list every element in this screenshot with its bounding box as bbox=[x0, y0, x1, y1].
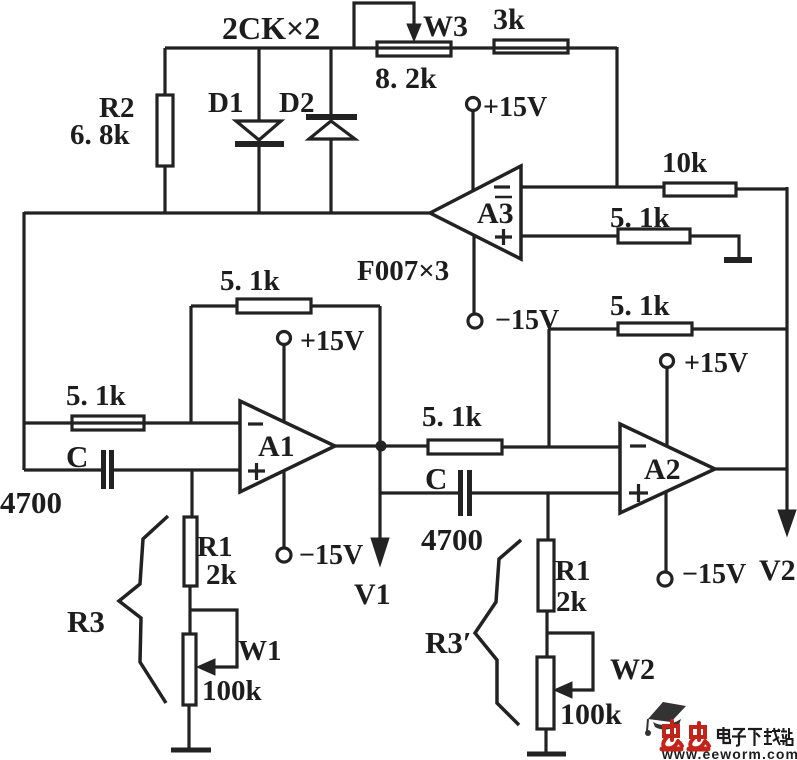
label +15V of A3 bbox=[483, 92, 547, 123]
potentiometer W3 wiper arrowhead bbox=[407, 24, 421, 41]
wire A1 output bbox=[335, 444, 428, 447]
op-amp A1 plus sign bbox=[248, 463, 265, 480]
svg-text:D2: D2 bbox=[279, 87, 314, 119]
terminal +15V of A1 bbox=[278, 332, 291, 345]
svg-text:4700: 4700 bbox=[421, 522, 483, 557]
capacitor C right left plate bbox=[458, 470, 463, 516]
label +15V of A2 bbox=[684, 348, 748, 379]
diode D2 cathode bar bbox=[306, 114, 357, 120]
terminal -15V of A3 bbox=[468, 314, 482, 328]
svg-text:6. 8k: 6. 8k bbox=[70, 119, 131, 151]
label A2 bbox=[644, 453, 681, 486]
watermark logo chong glyph 1 bbox=[662, 721, 682, 749]
wire R1 right to W2 bbox=[545, 611, 548, 657]
svg-text:5. 1k: 5. 1k bbox=[610, 290, 671, 322]
label W1 bbox=[238, 635, 282, 667]
wire V2 drop bbox=[785, 469, 788, 512]
svg-text:5. 1k: 5. 1k bbox=[610, 202, 671, 234]
label W2 bbox=[610, 653, 655, 686]
op-amp A2 plus sign bbox=[629, 484, 648, 502]
resistor 3k body bbox=[494, 40, 568, 53]
wire A2 output bbox=[715, 467, 787, 470]
wire A3 -15V stem bbox=[472, 236, 475, 314]
potentiometer W3 wiper bracket bbox=[354, 3, 414, 48]
label 5.1k A1 feedback bbox=[220, 265, 281, 297]
terminal +15V of A3 bbox=[467, 98, 480, 111]
wire A1 inverting input row bbox=[24, 421, 240, 424]
svg-text:W2: W2 bbox=[610, 653, 655, 686]
label C right bbox=[425, 461, 447, 496]
label C left bbox=[66, 439, 88, 474]
diode D1 anode triangle bbox=[236, 121, 281, 140]
op-amp A3 plus sign bbox=[495, 229, 512, 245]
label R1 right bbox=[555, 555, 590, 587]
watermark text zhan bbox=[780, 728, 793, 745]
svg-text:C: C bbox=[425, 461, 447, 496]
svg-text:+15V: +15V bbox=[684, 348, 748, 379]
ground bar left bbox=[171, 748, 211, 753]
diode D1 lead bottom bbox=[257, 147, 260, 213]
watermark text dian bbox=[718, 727, 730, 743]
label 4700 right bbox=[421, 522, 483, 557]
label 2k left bbox=[206, 559, 238, 591]
terminal -15V of A1 bbox=[277, 548, 291, 562]
label 5.1k at A3 plus input bbox=[610, 202, 671, 234]
label 8.2k bbox=[375, 62, 437, 95]
resistor 10k body bbox=[664, 183, 736, 196]
svg-text:A2: A2 bbox=[644, 453, 681, 486]
capacitor C right right plate bbox=[467, 470, 472, 516]
resistor R2 lead top bbox=[163, 48, 166, 95]
label -15V of A1 bbox=[299, 540, 363, 571]
svg-text:100k: 100k bbox=[560, 698, 622, 731]
arrow V1 bbox=[371, 538, 389, 566]
junction dot A1 output bbox=[376, 441, 387, 452]
diode D2 lead bottom bbox=[329, 139, 332, 213]
potentiometer W3 body 8.2k bbox=[377, 42, 451, 56]
resistor R1 left body bbox=[184, 517, 197, 586]
potentiometer W2 body 100k bbox=[537, 657, 554, 729]
label R1 left bbox=[197, 531, 232, 563]
op-amp A2 triangle bbox=[620, 424, 715, 513]
wire junction drop to R1 left bbox=[190, 470, 193, 517]
svg-text:2k: 2k bbox=[556, 586, 588, 618]
label 2k right bbox=[556, 586, 588, 618]
wire A1 feedback to output node bbox=[311, 304, 380, 307]
svg-text:R3′: R3′ bbox=[425, 625, 472, 660]
wire right rail vertical bbox=[785, 187, 788, 470]
resistor 5.1k at A3 plus input bbox=[618, 229, 690, 243]
svg-text:100k: 100k bbox=[202, 675, 263, 707]
svg-text:−15V: −15V bbox=[682, 559, 746, 590]
wire A3 inverting input to 10k bbox=[521, 185, 664, 188]
label 100k right bbox=[560, 698, 622, 731]
op-amp A2 minus sign bbox=[630, 444, 646, 447]
label 100k left bbox=[202, 675, 263, 707]
label R3 bbox=[67, 604, 105, 639]
potentiometer W1 wiper arrowhead bbox=[197, 659, 215, 675]
diode D2 anode triangle bbox=[309, 121, 355, 139]
label -15V of A3 bbox=[495, 305, 559, 336]
potentiometer W1 body 100k bbox=[183, 634, 196, 705]
resistor 5.1k A1 feedback bbox=[237, 299, 311, 313]
svg-text:4700: 4700 bbox=[0, 485, 62, 520]
diode D1 cathode bar bbox=[235, 141, 284, 147]
svg-text:5. 1k: 5. 1k bbox=[66, 380, 127, 412]
label V1 bbox=[354, 578, 391, 611]
wire A3 output bus to left rail bbox=[24, 211, 430, 214]
wire 100k to ground left bbox=[187, 705, 190, 748]
op-amp A1 minus sign bbox=[248, 422, 263, 425]
svg-text:A3: A3 bbox=[477, 197, 514, 230]
label D2 bbox=[279, 87, 314, 119]
ground bar at A3 plus network bbox=[724, 257, 752, 263]
op-amp A1 triangle bbox=[240, 401, 335, 492]
label F007x3 bbox=[357, 255, 449, 287]
svg-text:R1: R1 bbox=[555, 555, 590, 587]
brace R3 bbox=[119, 516, 168, 703]
svg-text:R3: R3 bbox=[67, 604, 105, 639]
svg-text:−15V: −15V bbox=[299, 540, 363, 571]
wire top bus corner down to A3 inverting input node bbox=[615, 47, 618, 188]
wire 100k right to ground bbox=[544, 729, 547, 752]
wire top bus bbox=[165, 46, 617, 49]
label 4700 left bbox=[0, 485, 62, 520]
label 2CK x2 bbox=[222, 10, 320, 46]
terminal -15V of A2 bbox=[658, 572, 672, 586]
wire A2 -15V stem bbox=[664, 493, 667, 572]
svg-text:2k: 2k bbox=[206, 559, 238, 591]
label A3 with overbar bbox=[477, 197, 514, 230]
label R2 bbox=[99, 92, 134, 124]
resistor R2 body bbox=[157, 95, 173, 166]
watermark text xia bbox=[748, 729, 762, 746]
label A1 bbox=[258, 430, 295, 463]
label V2 bbox=[759, 554, 796, 587]
svg-text:2CK×2: 2CK×2 bbox=[222, 10, 320, 46]
diode D2 lead top bbox=[329, 48, 332, 115]
potentiometer W2 wiper path bbox=[547, 633, 593, 690]
wire C left row bbox=[24, 468, 101, 471]
wire C to A1 plus input bbox=[114, 468, 240, 471]
wire left rail vertical bbox=[22, 212, 25, 470]
resistor R1 right body bbox=[538, 540, 554, 611]
svg-text:W1: W1 bbox=[238, 635, 282, 667]
wire A1 feedback top row bbox=[191, 304, 237, 307]
wire drop to R1 right bbox=[546, 493, 549, 540]
label R3 prime bbox=[425, 625, 472, 660]
ground bar right bbox=[527, 752, 566, 757]
svg-text:5. 1k: 5. 1k bbox=[422, 401, 483, 433]
brace R3 prime bbox=[475, 540, 521, 725]
wire A3 +15V stem bbox=[471, 111, 474, 191]
svg-text:3k: 3k bbox=[493, 3, 525, 36]
capacitor C right plate bbox=[109, 450, 114, 489]
label 5.1k A2 feedback bbox=[610, 290, 671, 322]
resistor 5.1k at A1 input bbox=[72, 416, 144, 430]
svg-text:10k: 10k bbox=[662, 147, 708, 179]
resistor R2 lead bottom bbox=[163, 166, 166, 213]
resistor 5.1k A2 feedback bbox=[618, 323, 692, 335]
label -15V of A2 bbox=[682, 559, 746, 590]
watermark logo graduation cap bbox=[645, 702, 686, 736]
wire A1 feedback vertical left bbox=[189, 306, 192, 423]
wire feedback drop to A2 inverting input bbox=[547, 329, 550, 447]
potentiometer W2 wiper arrowhead bbox=[554, 682, 572, 698]
svg-text:8. 2k: 8. 2k bbox=[375, 62, 437, 95]
svg-text:A1: A1 bbox=[258, 430, 295, 463]
wire C to A2 plus input bbox=[472, 491, 620, 494]
arrow V2 bbox=[778, 510, 796, 536]
svg-text:V2: V2 bbox=[759, 554, 796, 587]
svg-text:+15V: +15V bbox=[483, 92, 547, 123]
wire 10k to right rail bbox=[736, 187, 787, 190]
watermark logo chong glyph 2 bbox=[689, 723, 709, 749]
label 3k bbox=[493, 3, 525, 36]
label +15V of A1 bbox=[300, 326, 364, 357]
op-amp A3 minus sign bbox=[494, 185, 510, 188]
op-amp A3 triangle bbox=[430, 166, 521, 259]
watermark text zi bbox=[732, 729, 746, 746]
svg-text:V1: V1 bbox=[354, 578, 391, 611]
wire A1 +15V stem bbox=[282, 345, 285, 422]
wire A2 feedback to right rail bbox=[692, 327, 787, 330]
svg-text:C: C bbox=[66, 439, 88, 474]
wire A1 feedback vertical right bbox=[378, 306, 381, 446]
diode D1 lead top bbox=[257, 48, 260, 121]
wire A3 non-inverting input bbox=[521, 234, 618, 237]
wire V1 drop bbox=[378, 446, 381, 540]
wire C right row from V1 node bbox=[380, 491, 458, 494]
capacitor C left plate bbox=[101, 450, 106, 489]
label 10k bbox=[662, 147, 708, 179]
wire A2 +15V stem bbox=[665, 368, 668, 446]
svg-text:F007×3: F007×3 bbox=[357, 255, 449, 287]
svg-text:5. 1k: 5. 1k bbox=[220, 265, 281, 297]
terminal +15V of A2 bbox=[661, 355, 674, 368]
op-amp A3 overbar bbox=[495, 196, 512, 199]
wire 5.1k to ground stem bbox=[690, 236, 739, 258]
label 5.1k at A1 input bbox=[66, 380, 127, 412]
svg-text:W3: W3 bbox=[423, 10, 468, 43]
wire A1 -15V stem bbox=[282, 471, 285, 548]
label D1 bbox=[208, 87, 243, 119]
label 6.8k bbox=[70, 119, 131, 151]
wire A2 feedback upper bbox=[549, 327, 618, 330]
label W3 bbox=[423, 10, 468, 43]
wire 5.1k to A2 inverting input bbox=[502, 445, 620, 448]
watermark text zai bbox=[764, 728, 780, 745]
resistor 5.1k between A1 and A2 bbox=[428, 440, 502, 454]
svg-text:D1: D1 bbox=[208, 87, 243, 119]
wire R1 to W1 bbox=[188, 586, 191, 634]
svg-text:+15V: +15V bbox=[300, 326, 364, 357]
potentiometer W1 wiper path bbox=[190, 610, 237, 667]
svg-text:www.eeworm.com: www.eeworm.com bbox=[661, 746, 797, 760]
label 5.1k between A1 and A2 bbox=[422, 401, 483, 433]
